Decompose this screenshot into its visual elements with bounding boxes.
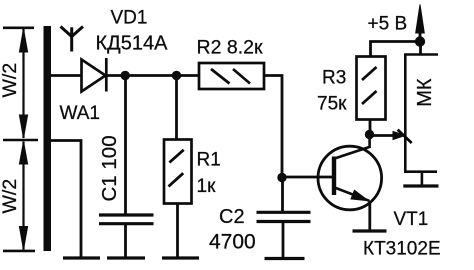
ground bar under antenna tap: [63, 256, 100, 259]
svg-text:МК: МК: [414, 78, 436, 107]
antenna WA1 vertical element bar: [44, 26, 52, 251]
dimension tick middle: [3, 139, 38, 142]
node B junction dot: [172, 71, 181, 80]
transistor emitter line with arrow: [335, 188, 370, 201]
dimension tick bottom: [3, 250, 35, 253]
wire antenna to diode: [51, 74, 82, 77]
svg-text:C1 100: C1 100: [98, 135, 121, 201]
wire node C to C2: [281, 178, 284, 212]
diode VD1: [82, 58, 107, 92]
capacitor C1: [99, 215, 154, 224]
MK box bracket: [405, 55, 438, 172]
svg-text:R1: R1: [197, 150, 221, 171]
wire +5V node to MK top: [419, 42, 422, 55]
svg-text:КТ3102Е: КТ3102Е: [363, 239, 441, 260]
wire C2 to ground: [282, 223, 285, 258]
wire node A to C1: [124, 76, 127, 217]
wire emitter to ground: [368, 201, 371, 230]
wire collector to MK input with arrow: [370, 130, 412, 143]
ground bar under emitter: [353, 229, 387, 232]
node A junction dot: [121, 71, 130, 80]
wire diode to node A: [106, 74, 176, 77]
node C junction dot: [277, 173, 286, 182]
wire R2 to node C: [264, 76, 282, 178]
wire R1 to ground: [176, 204, 179, 258]
ground bar under C1: [107, 256, 145, 259]
svg-text:+5 В: +5 В: [368, 14, 408, 35]
wire node B to R1: [175, 76, 178, 141]
svg-text:4700: 4700: [209, 231, 256, 254]
node E junction dot +5V: [415, 36, 425, 46]
transistor VT1 circle: [318, 146, 382, 210]
ground bar under MK: [403, 184, 438, 187]
dimension arrow lower W/2: [19, 142, 27, 250]
svg-text:VD1: VD1: [111, 8, 148, 29]
dimension tick top: [3, 26, 34, 29]
capacitor C2: [257, 212, 311, 221]
transistor base bar: [332, 157, 336, 196]
svg-text:W/2: W/2: [0, 63, 21, 98]
dimension arrow upper W/2: [19, 29, 27, 138]
MK ground stub: [421, 172, 424, 185]
wire R3 top to +5V node: [371, 42, 421, 57]
wire node C to base: [282, 176, 333, 179]
svg-text:C2: C2: [219, 206, 245, 228]
resistor R1: [164, 140, 192, 204]
wire node B to R2: [177, 74, 200, 77]
svg-text:75к: 75к: [317, 94, 347, 115]
svg-text:R3: R3: [322, 68, 346, 89]
node D junction dot collector: [365, 130, 374, 139]
wire R3 bottom to node D: [369, 120, 372, 135]
ground bar under R1: [162, 256, 199, 259]
transistor collector line: [335, 135, 370, 159]
ground bar under C2: [265, 257, 305, 260]
svg-text:КД514А: КД514А: [96, 33, 169, 55]
svg-text:W/2: W/2: [0, 179, 21, 214]
svg-text:1к: 1к: [197, 176, 217, 197]
antenna symbol: [61, 27, 84, 52]
+5V supply arrow: [416, 5, 425, 42]
svg-text:R2 8.2к: R2 8.2к: [197, 37, 263, 59]
resistor R2: [199, 63, 264, 89]
svg-text:WA1: WA1: [60, 103, 100, 124]
antenna middle tap wire: [51, 141, 82, 258]
wire C1 to ground: [124, 225, 127, 257]
svg-text:VT1: VT1: [394, 209, 429, 230]
resistor R3: [357, 57, 386, 120]
